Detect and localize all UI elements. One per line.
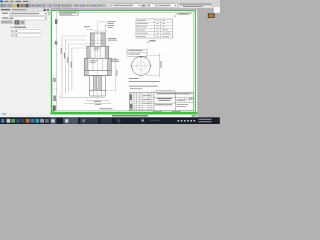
drawing sheet xyxy=(51,10,198,113)
toolbar icons xyxy=(0,4,3,7)
row Угол xyxy=(2,17,9,18)
right dimension of hub xyxy=(111,57,116,59)
toolbar xyxy=(0,3,220,9)
toolbar combobox 2 xyxy=(158,4,178,8)
right gutter xyxy=(197,8,220,117)
coord field 1 xyxy=(11,30,13,33)
status message strip xyxy=(51,115,198,118)
gear legend box xyxy=(59,12,78,16)
gear hub E xyxy=(90,76,106,91)
start button xyxy=(1,119,2,121)
top step dimension xyxy=(105,25,107,34)
gear section block C xyxy=(84,58,111,70)
top callout leaders and texts xyxy=(99,21,107,23)
top left dim xyxy=(87,29,94,31)
vertical dim right of circle xyxy=(159,54,161,78)
toolbar right bands xyxy=(180,3,212,5)
menu bar xyxy=(0,0,220,3)
sheet drawing content xyxy=(52,12,194,112)
left dimension stack xyxy=(61,36,63,98)
kopiroval / format labels xyxy=(153,110,162,113)
parameters table xyxy=(136,19,173,38)
star note xyxy=(100,107,113,110)
title block texts xyxy=(157,93,190,94)
inner margin frame xyxy=(57,12,194,111)
icon colored specks xyxy=(75,5,76,6)
mid callout xyxy=(108,37,116,40)
circle end view xyxy=(132,57,151,76)
coord field 2 xyxy=(11,34,13,37)
left parameters panel xyxy=(0,8,51,113)
purple line xyxy=(51,9,198,10)
doc tab strip xyxy=(51,8,197,10)
green origin mark xyxy=(131,109,133,111)
sheet green frame xyxy=(52,11,196,113)
tray icons xyxy=(178,120,180,122)
gear section block D (flange band) xyxy=(84,70,111,75)
sqrt-m mark below table xyxy=(147,40,157,43)
label Способ построения + buttons xyxy=(1,21,12,22)
chamfer callout box xyxy=(127,49,147,56)
notes under circle xyxy=(129,77,139,80)
app logo xyxy=(0,0,2,2)
status bar left xyxy=(0,114,51,118)
taskbar xyxy=(0,117,220,124)
title block xyxy=(130,92,194,111)
gear section block A (top) xyxy=(90,33,105,46)
toolbar combobox 1 xyxy=(112,4,141,8)
section Координаты xyxy=(11,27,13,29)
toolbar spin box xyxy=(147,4,156,8)
open app buttons xyxy=(50,118,56,124)
panel header xyxy=(0,8,51,11)
row Тип xyxy=(2,13,8,14)
gear bottom flange F xyxy=(90,90,106,96)
keyway notch xyxy=(140,55,142,57)
clock xyxy=(199,119,212,120)
white box top right xyxy=(214,7,220,13)
gear section block B xyxy=(87,46,109,58)
sheet origin marker xyxy=(52,109,54,111)
left margin vertical texts xyxy=(55,19,57,24)
small icons after combo xyxy=(142,4,145,7)
surface finish mark top right xyxy=(174,13,192,17)
orange icon xyxy=(208,13,215,18)
gear centerline xyxy=(97,21,99,100)
green band xyxy=(51,112,198,114)
taskbar icons xyxy=(7,119,11,123)
panel right separator xyxy=(49,8,52,113)
bottom dimension lines xyxy=(60,97,106,99)
